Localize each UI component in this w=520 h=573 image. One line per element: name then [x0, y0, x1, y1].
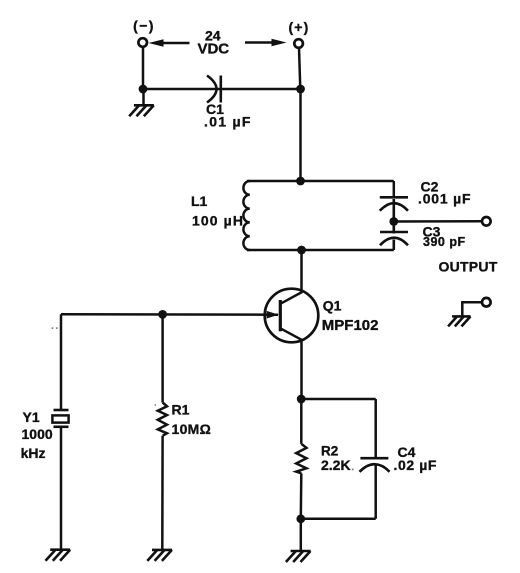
- svg-text:.02 µF: .02 µF: [394, 457, 438, 473]
- capacitor C4: [360, 458, 390, 472]
- wire gate-left vertical to crystal: [60, 314, 63, 410]
- svg-text:.01 µF: .01 µF: [204, 114, 252, 130]
- junction right of top rail: [296, 85, 305, 94]
- wire ground terminal lead: [462, 302, 482, 316]
- wire crystal to ground: [60, 427, 63, 550]
- wire tank right vertical (top): [393, 181, 396, 198]
- ground below (-) junction: [129, 89, 154, 116]
- scan specks: [52, 327, 354, 470]
- wire tank bottom: [247, 249, 394, 252]
- wire drain vertical: [300, 250, 303, 293]
- ground below crystal: [46, 550, 71, 561]
- wire output: [394, 220, 482, 223]
- svg-text:(+): (+): [288, 19, 309, 35]
- svg-text:Y1: Y1: [23, 409, 40, 425]
- svg-text:MPF102: MPF102: [322, 317, 379, 334]
- junction source node: [297, 395, 306, 404]
- wire R2 bottom lead: [300, 473, 303, 519]
- arrow toward (-): [149, 39, 190, 47]
- svg-text:2.2K: 2.2K: [321, 457, 351, 473]
- wire R2/C4 top: [301, 398, 376, 401]
- junction base / R1: [158, 310, 167, 319]
- capacitor C3: [380, 222, 408, 251]
- resistor R2: [296, 444, 306, 474]
- junction source ground node: [296, 514, 305, 523]
- wire supply spine down to tank: [299, 89, 302, 181]
- svg-text:R1: R1: [172, 401, 190, 417]
- arrow toward (+): [245, 39, 287, 47]
- wire C4 top lead: [374, 399, 377, 458]
- svg-text:VDC: VDC: [197, 40, 229, 57]
- junction output node: [389, 217, 398, 226]
- wire C4 bottom lead: [374, 465, 377, 519]
- ground below R2/C4: [286, 551, 311, 562]
- wire R2/C4 bottom: [301, 518, 376, 521]
- wire base horizontal: [61, 313, 278, 316]
- crystal Y1: [52, 410, 68, 427]
- svg-text:L1: L1: [191, 193, 208, 209]
- wire (+) lead down: [299, 48, 300, 89]
- wire top horizontal rail: [143, 88, 301, 91]
- wire to ground stub: [300, 519, 303, 551]
- svg-text:.001 µF: .001 µF: [418, 191, 471, 207]
- ground below R1: [147, 550, 172, 561]
- terminal (+): [294, 39, 303, 48]
- svg-text:10MΩ: 10MΩ: [172, 421, 212, 437]
- resistor R1: [158, 403, 167, 436]
- svg-text:kHz: kHz: [21, 445, 46, 461]
- svg-text:100 µH: 100 µH: [192, 213, 244, 229]
- junction tank bottom: [297, 246, 306, 255]
- junction left of top rail: [139, 85, 148, 94]
- wire R2 top lead: [300, 399, 303, 444]
- wire source vertical: [300, 340, 303, 399]
- svg-text:1000: 1000: [22, 426, 53, 442]
- transistor Q1: [265, 289, 319, 343]
- svg-text:OUTPUT: OUTPUT: [439, 258, 498, 274]
- terminal ground reference (right): [482, 298, 491, 307]
- wire tank top: [247, 180, 394, 183]
- capacitor C1: [207, 76, 221, 103]
- capacitor C2: [380, 197, 408, 221]
- svg-text:Q1: Q1: [323, 298, 342, 314]
- inductor L1: [243, 181, 249, 250]
- svg-text:390 pF: 390 pF: [423, 235, 466, 249]
- wire (-) lead down: [142, 47, 145, 89]
- wire R1 bottom lead: [161, 436, 164, 550]
- terminal OUTPUT: [482, 217, 491, 226]
- wire R1 top lead: [161, 314, 164, 402]
- terminal (-): [138, 38, 147, 47]
- ground at output return: [448, 316, 471, 326]
- svg-text:(−): (−): [133, 18, 155, 34]
- junction tank top: [296, 177, 305, 186]
